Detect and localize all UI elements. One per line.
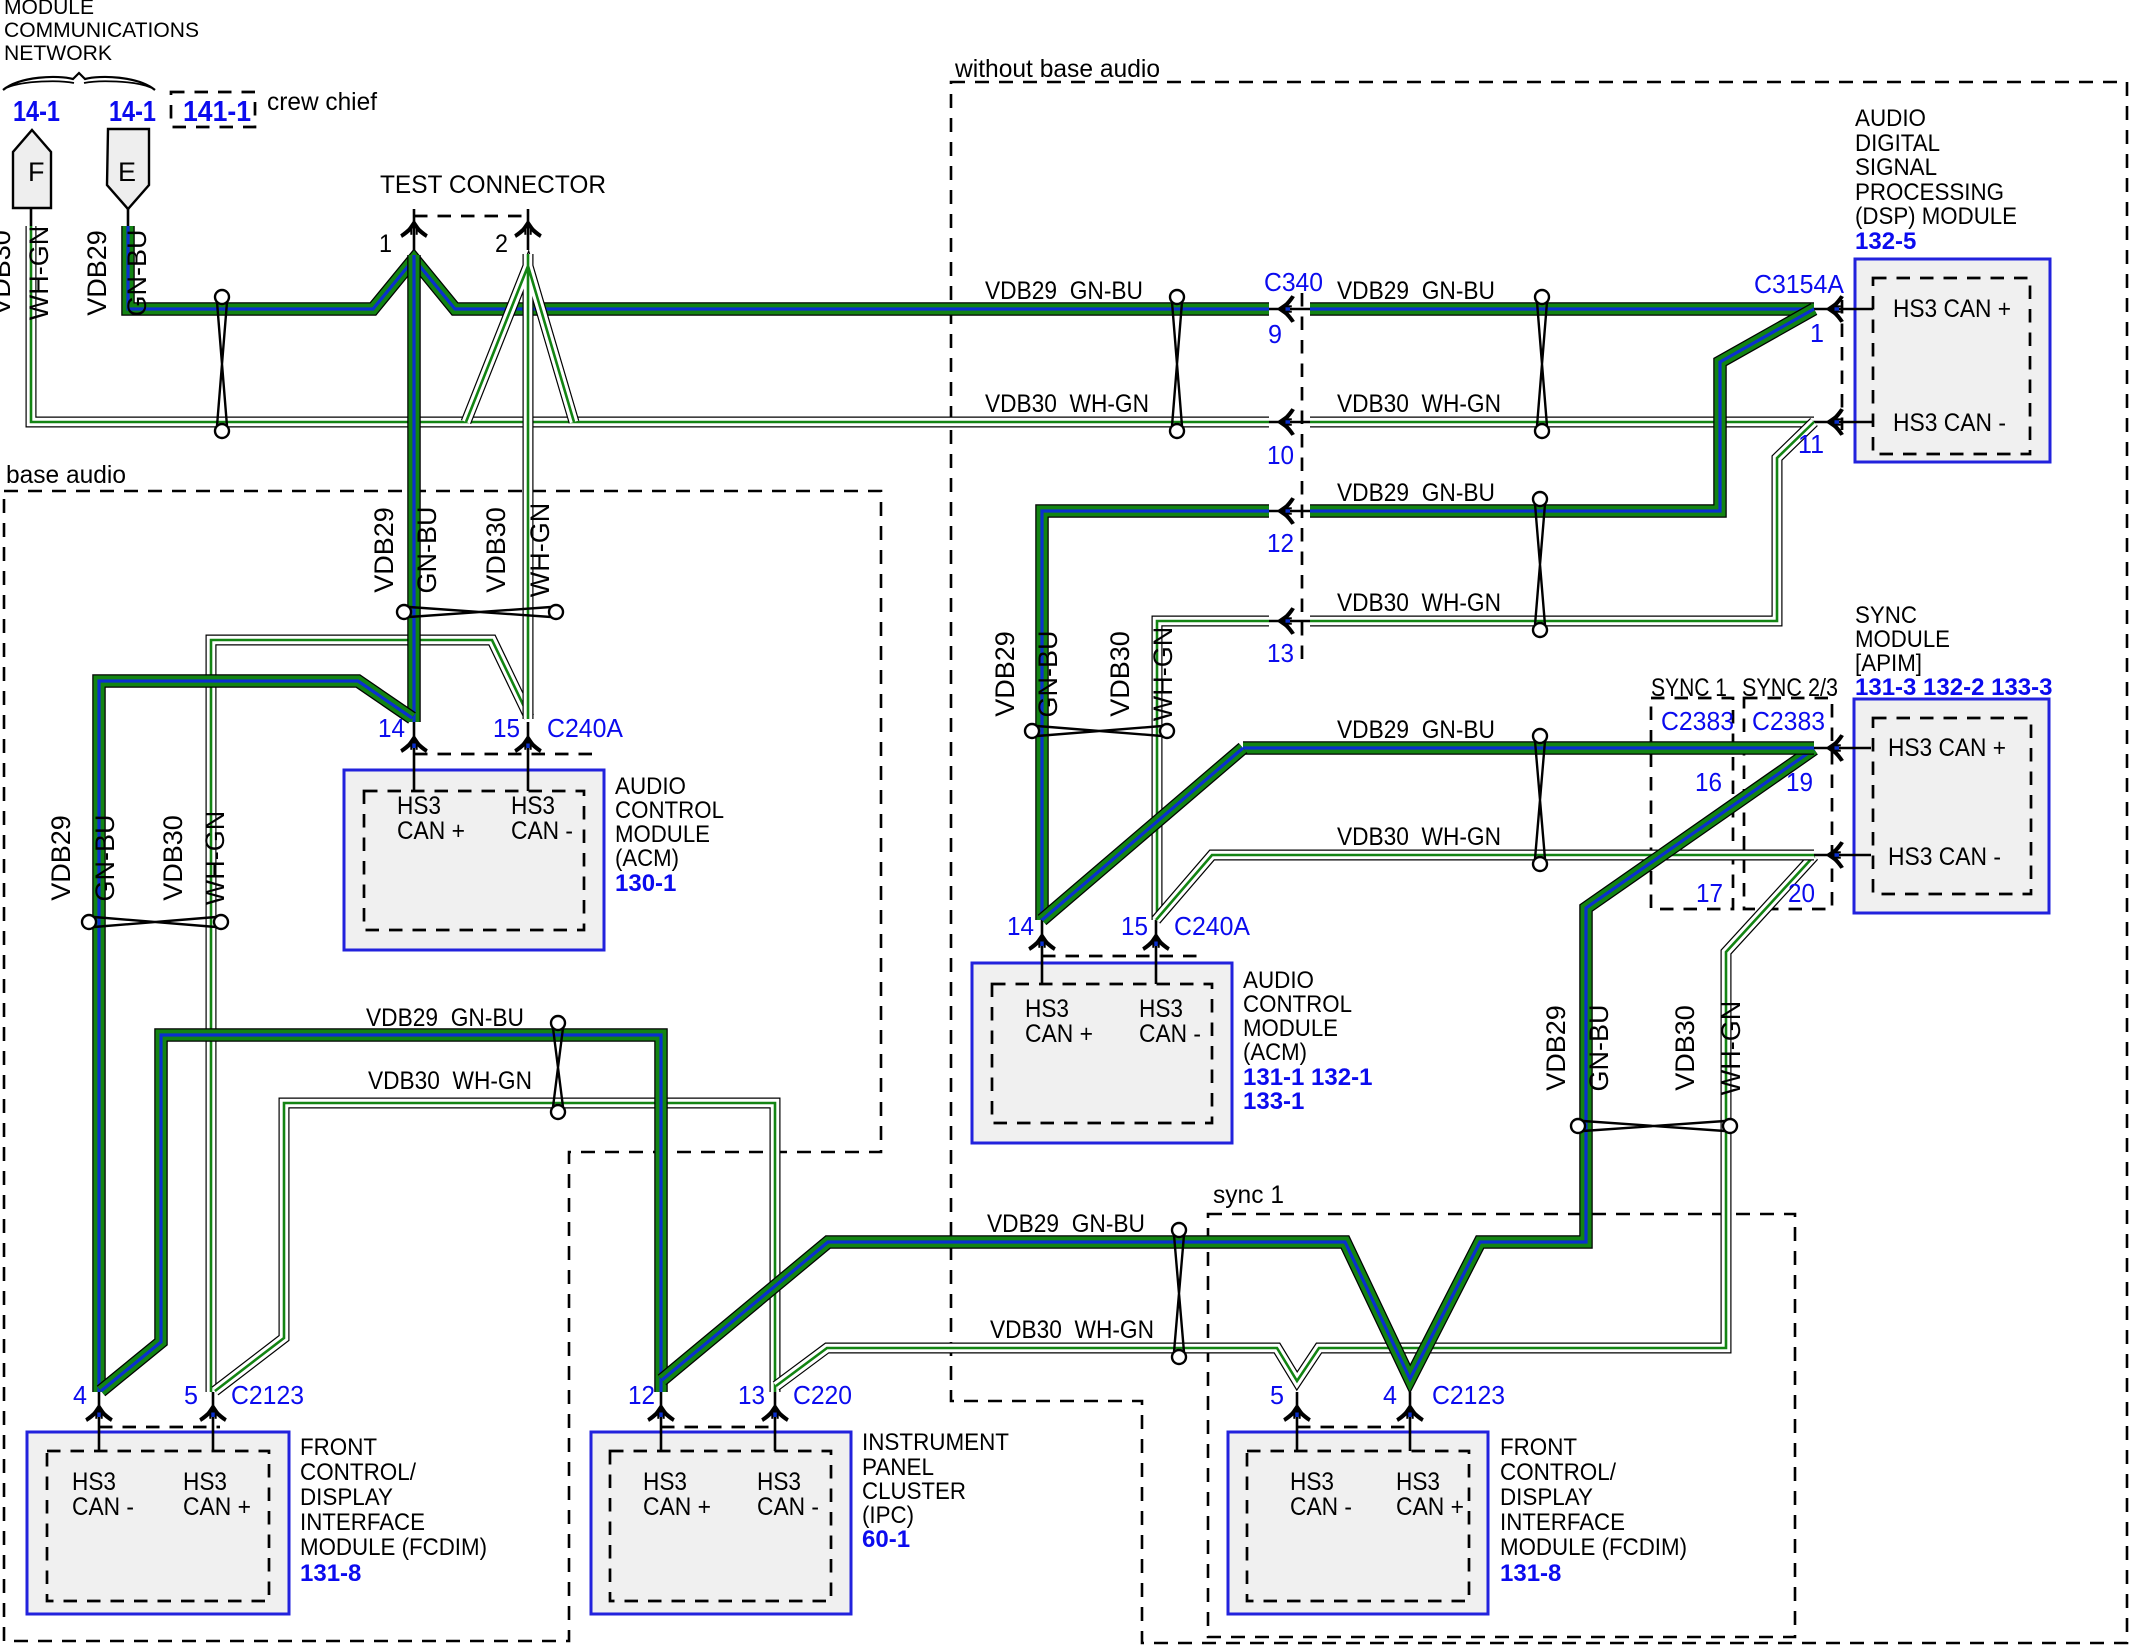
svg-text:HS3: HS3 [643, 1468, 687, 1496]
svg-text:E: E [118, 157, 136, 187]
svg-text:C340: C340 [1264, 267, 1323, 297]
svg-text:VDB30: VDB30 [0, 230, 16, 316]
svg-text:(ACM): (ACM) [615, 845, 679, 872]
svg-text:HS3: HS3 [1025, 995, 1069, 1023]
svg-text:VDB29: VDB29 [1541, 1005, 1571, 1091]
svg-text:HS3 CAN +: HS3 CAN + [1893, 295, 2011, 323]
svg-text:CAN +: CAN + [1396, 1493, 1464, 1521]
svg-text:HS3 CAN -: HS3 CAN - [1888, 843, 2001, 871]
svg-text:COMMUNICATIONS: COMMUNICATIONS [4, 18, 199, 42]
svg-text:CAN +: CAN + [397, 817, 465, 845]
svg-text:DISPLAY: DISPLAY [1500, 1484, 1593, 1511]
svg-text:HS3 CAN +: HS3 CAN + [1888, 734, 2006, 762]
svg-text:C2383: C2383 [1752, 706, 1825, 736]
svg-text:WH-GN: WH-GN [1148, 627, 1178, 721]
svg-text:VDB30: VDB30 [158, 815, 188, 901]
svg-text:C3154A: C3154A [1754, 269, 1845, 299]
svg-text:VDB29: VDB29 [46, 815, 76, 901]
svg-text:VDB30 WH-GN: VDB30 WH-GN [985, 390, 1149, 418]
svg-text:CAN -: CAN - [72, 1493, 134, 1521]
svg-text:4: 4 [1383, 1380, 1397, 1410]
svg-text:INSTRUMENT: INSTRUMENT [862, 1429, 1009, 1456]
svg-text:5: 5 [1270, 1380, 1284, 1410]
svg-text:C240A: C240A [547, 713, 624, 743]
svg-text:C2123: C2123 [231, 1380, 304, 1410]
svg-text:(IPC): (IPC) [862, 1502, 914, 1529]
svg-text:CAN +: CAN + [183, 1493, 251, 1521]
svg-text:INTERFACE: INTERFACE [1500, 1509, 1625, 1536]
svg-text:CAN -: CAN - [1139, 1020, 1201, 1048]
svg-text:VDB29 GN-BU: VDB29 GN-BU [985, 277, 1143, 305]
svg-text:15: 15 [1121, 911, 1148, 941]
svg-text:17: 17 [1696, 878, 1723, 908]
svg-text:WH-GN: WH-GN [24, 226, 54, 320]
svg-text:PANEL: PANEL [862, 1454, 934, 1481]
svg-text:CONTROL: CONTROL [615, 797, 724, 824]
svg-text:VDB29 GN-BU: VDB29 GN-BU [987, 1210, 1145, 1238]
svg-text:C2123: C2123 [1432, 1380, 1505, 1410]
svg-text:CAN -: CAN - [757, 1493, 819, 1521]
svg-text:WH-GN: WH-GN [200, 811, 230, 905]
svg-text:FRONT: FRONT [1500, 1434, 1577, 1461]
svg-text:VDB30 WH-GN: VDB30 WH-GN [1337, 823, 1501, 851]
svg-text:14: 14 [1007, 911, 1034, 941]
svg-text:12: 12 [628, 1380, 655, 1410]
svg-text:HS3: HS3 [72, 1468, 116, 1496]
svg-text:HS3: HS3 [511, 792, 555, 820]
svg-text:15: 15 [493, 713, 520, 743]
svg-text:VDB30 WH-GN: VDB30 WH-GN [1337, 589, 1501, 617]
svg-text:19: 19 [1786, 767, 1813, 797]
svg-text:AUDIO: AUDIO [615, 773, 686, 800]
svg-text:2: 2 [495, 230, 508, 258]
svg-text:VDB30: VDB30 [1670, 1005, 1700, 1091]
svg-text:14-1: 14-1 [109, 96, 156, 128]
svg-text:20: 20 [1788, 878, 1815, 908]
svg-text:16: 16 [1695, 767, 1722, 797]
svg-text:DISPLAY: DISPLAY [300, 1484, 393, 1511]
svg-text:CAN -: CAN - [1290, 1493, 1352, 1521]
svg-text:(ACM): (ACM) [1243, 1039, 1307, 1066]
svg-text:GN-BU: GN-BU [122, 230, 152, 317]
svg-text:sync 1: sync 1 [1213, 1181, 1284, 1209]
svg-text:5: 5 [184, 1380, 198, 1410]
svg-text:VDB29 GN-BU: VDB29 GN-BU [1337, 479, 1495, 507]
svg-text:14-1: 14-1 [13, 96, 60, 128]
svg-text:VDB29 GN-BU: VDB29 GN-BU [1337, 277, 1495, 305]
svg-text:131-8: 131-8 [300, 1560, 361, 1587]
svg-text:131-1 132-1: 131-1 132-1 [1243, 1064, 1372, 1091]
svg-text:GN-BU: GN-BU [412, 507, 442, 594]
svg-text:SYNC: SYNC [1855, 602, 1917, 629]
svg-text:crew chief: crew chief [267, 88, 377, 116]
svg-text:VDB30: VDB30 [1105, 631, 1135, 717]
svg-text:133-1: 133-1 [1243, 1088, 1304, 1115]
svg-text:DIGITAL: DIGITAL [1855, 130, 1940, 157]
svg-text:CAN +: CAN + [1025, 1020, 1093, 1048]
svg-text:1: 1 [1810, 318, 1824, 348]
svg-text:VDB29 GN-BU: VDB29 GN-BU [1337, 716, 1495, 744]
svg-text:1: 1 [379, 230, 392, 258]
svg-text:HS3: HS3 [757, 1468, 801, 1496]
svg-text:MODULE: MODULE [615, 821, 710, 848]
svg-text:GN-BU: GN-BU [1584, 1005, 1614, 1092]
svg-text:MODULE: MODULE [1243, 1015, 1338, 1042]
svg-text:MODULE: MODULE [4, 0, 94, 19]
svg-text:14: 14 [378, 713, 405, 743]
svg-text:C220: C220 [793, 1380, 852, 1410]
svg-text:CONTROL: CONTROL [1243, 991, 1352, 1018]
svg-text:without base audio: without base audio [954, 55, 1160, 83]
svg-text:HS3: HS3 [397, 792, 441, 820]
svg-text:VDB29: VDB29 [990, 631, 1020, 717]
svg-text:F: F [28, 157, 45, 187]
svg-text:GN-BU: GN-BU [90, 815, 120, 902]
svg-text:CLUSTER: CLUSTER [862, 1478, 966, 1505]
svg-text:4: 4 [73, 1380, 87, 1410]
svg-text:11: 11 [1798, 429, 1824, 459]
svg-text:VDB30 WH-GN: VDB30 WH-GN [990, 1316, 1154, 1344]
svg-text:CONTROL/: CONTROL/ [300, 1459, 416, 1486]
svg-text:WH-GN: WH-GN [1716, 1001, 1746, 1095]
svg-text:131-8: 131-8 [1500, 1560, 1561, 1587]
svg-text:10: 10 [1267, 440, 1294, 470]
svg-text:AUDIO: AUDIO [1855, 105, 1926, 132]
svg-text:FRONT: FRONT [300, 1434, 377, 1461]
svg-text:MODULE (FCDIM): MODULE (FCDIM) [1500, 1534, 1687, 1561]
svg-text:CAN +: CAN + [643, 1493, 711, 1521]
svg-text:C240A: C240A [1174, 911, 1251, 941]
svg-text:13: 13 [738, 1380, 765, 1410]
svg-text:HS3: HS3 [1396, 1468, 1440, 1496]
svg-text:HS3: HS3 [1139, 995, 1183, 1023]
svg-text:9: 9 [1268, 319, 1282, 349]
svg-text:VDB30: VDB30 [481, 507, 511, 593]
svg-text:130-1: 130-1 [615, 870, 676, 897]
svg-text:WH-GN: WH-GN [525, 503, 555, 597]
svg-text:CONTROL/: CONTROL/ [1500, 1459, 1616, 1486]
svg-text:SYNC 2/3: SYNC 2/3 [1742, 674, 1838, 702]
svg-text:C2383: C2383 [1661, 706, 1734, 736]
svg-text:TEST CONNECTOR: TEST CONNECTOR [380, 171, 606, 199]
svg-text:GN-BU: GN-BU [1033, 631, 1063, 718]
svg-text:SYNC 1: SYNC 1 [1651, 674, 1727, 702]
svg-text:(DSP) MODULE: (DSP) MODULE [1855, 203, 2017, 230]
svg-text:MODULE (FCDIM): MODULE (FCDIM) [300, 1534, 487, 1561]
svg-text:INTERFACE: INTERFACE [300, 1509, 425, 1536]
svg-text:PROCESSING: PROCESSING [1855, 179, 2004, 206]
svg-text:VDB29: VDB29 [82, 230, 112, 316]
svg-text:HS3: HS3 [1290, 1468, 1334, 1496]
svg-text:HS3: HS3 [183, 1468, 227, 1496]
svg-text:13: 13 [1267, 638, 1294, 668]
svg-text:12: 12 [1267, 528, 1294, 558]
svg-text:VDB30 WH-GN: VDB30 WH-GN [1337, 390, 1501, 418]
svg-text:CAN -: CAN - [511, 817, 573, 845]
svg-text:132-5: 132-5 [1855, 228, 1916, 255]
svg-text:NETWORK: NETWORK [4, 41, 113, 65]
svg-text:VDB29: VDB29 [369, 507, 399, 593]
svg-text:VDB29 GN-BU: VDB29 GN-BU [366, 1004, 524, 1032]
svg-text:131-3 132-2 133-3: 131-3 132-2 133-3 [1855, 674, 2052, 701]
svg-text:AUDIO: AUDIO [1243, 967, 1314, 994]
svg-text:HS3 CAN -: HS3 CAN - [1893, 409, 2006, 437]
svg-text:SIGNAL: SIGNAL [1855, 154, 1937, 181]
svg-text:60-1: 60-1 [862, 1526, 910, 1553]
svg-text:[APIM]: [APIM] [1855, 650, 1922, 677]
svg-text:141-1: 141-1 [183, 96, 251, 128]
svg-text:VDB30 WH-GN: VDB30 WH-GN [368, 1067, 532, 1095]
svg-text:base audio: base audio [6, 461, 126, 489]
svg-text:MODULE: MODULE [1855, 626, 1950, 653]
